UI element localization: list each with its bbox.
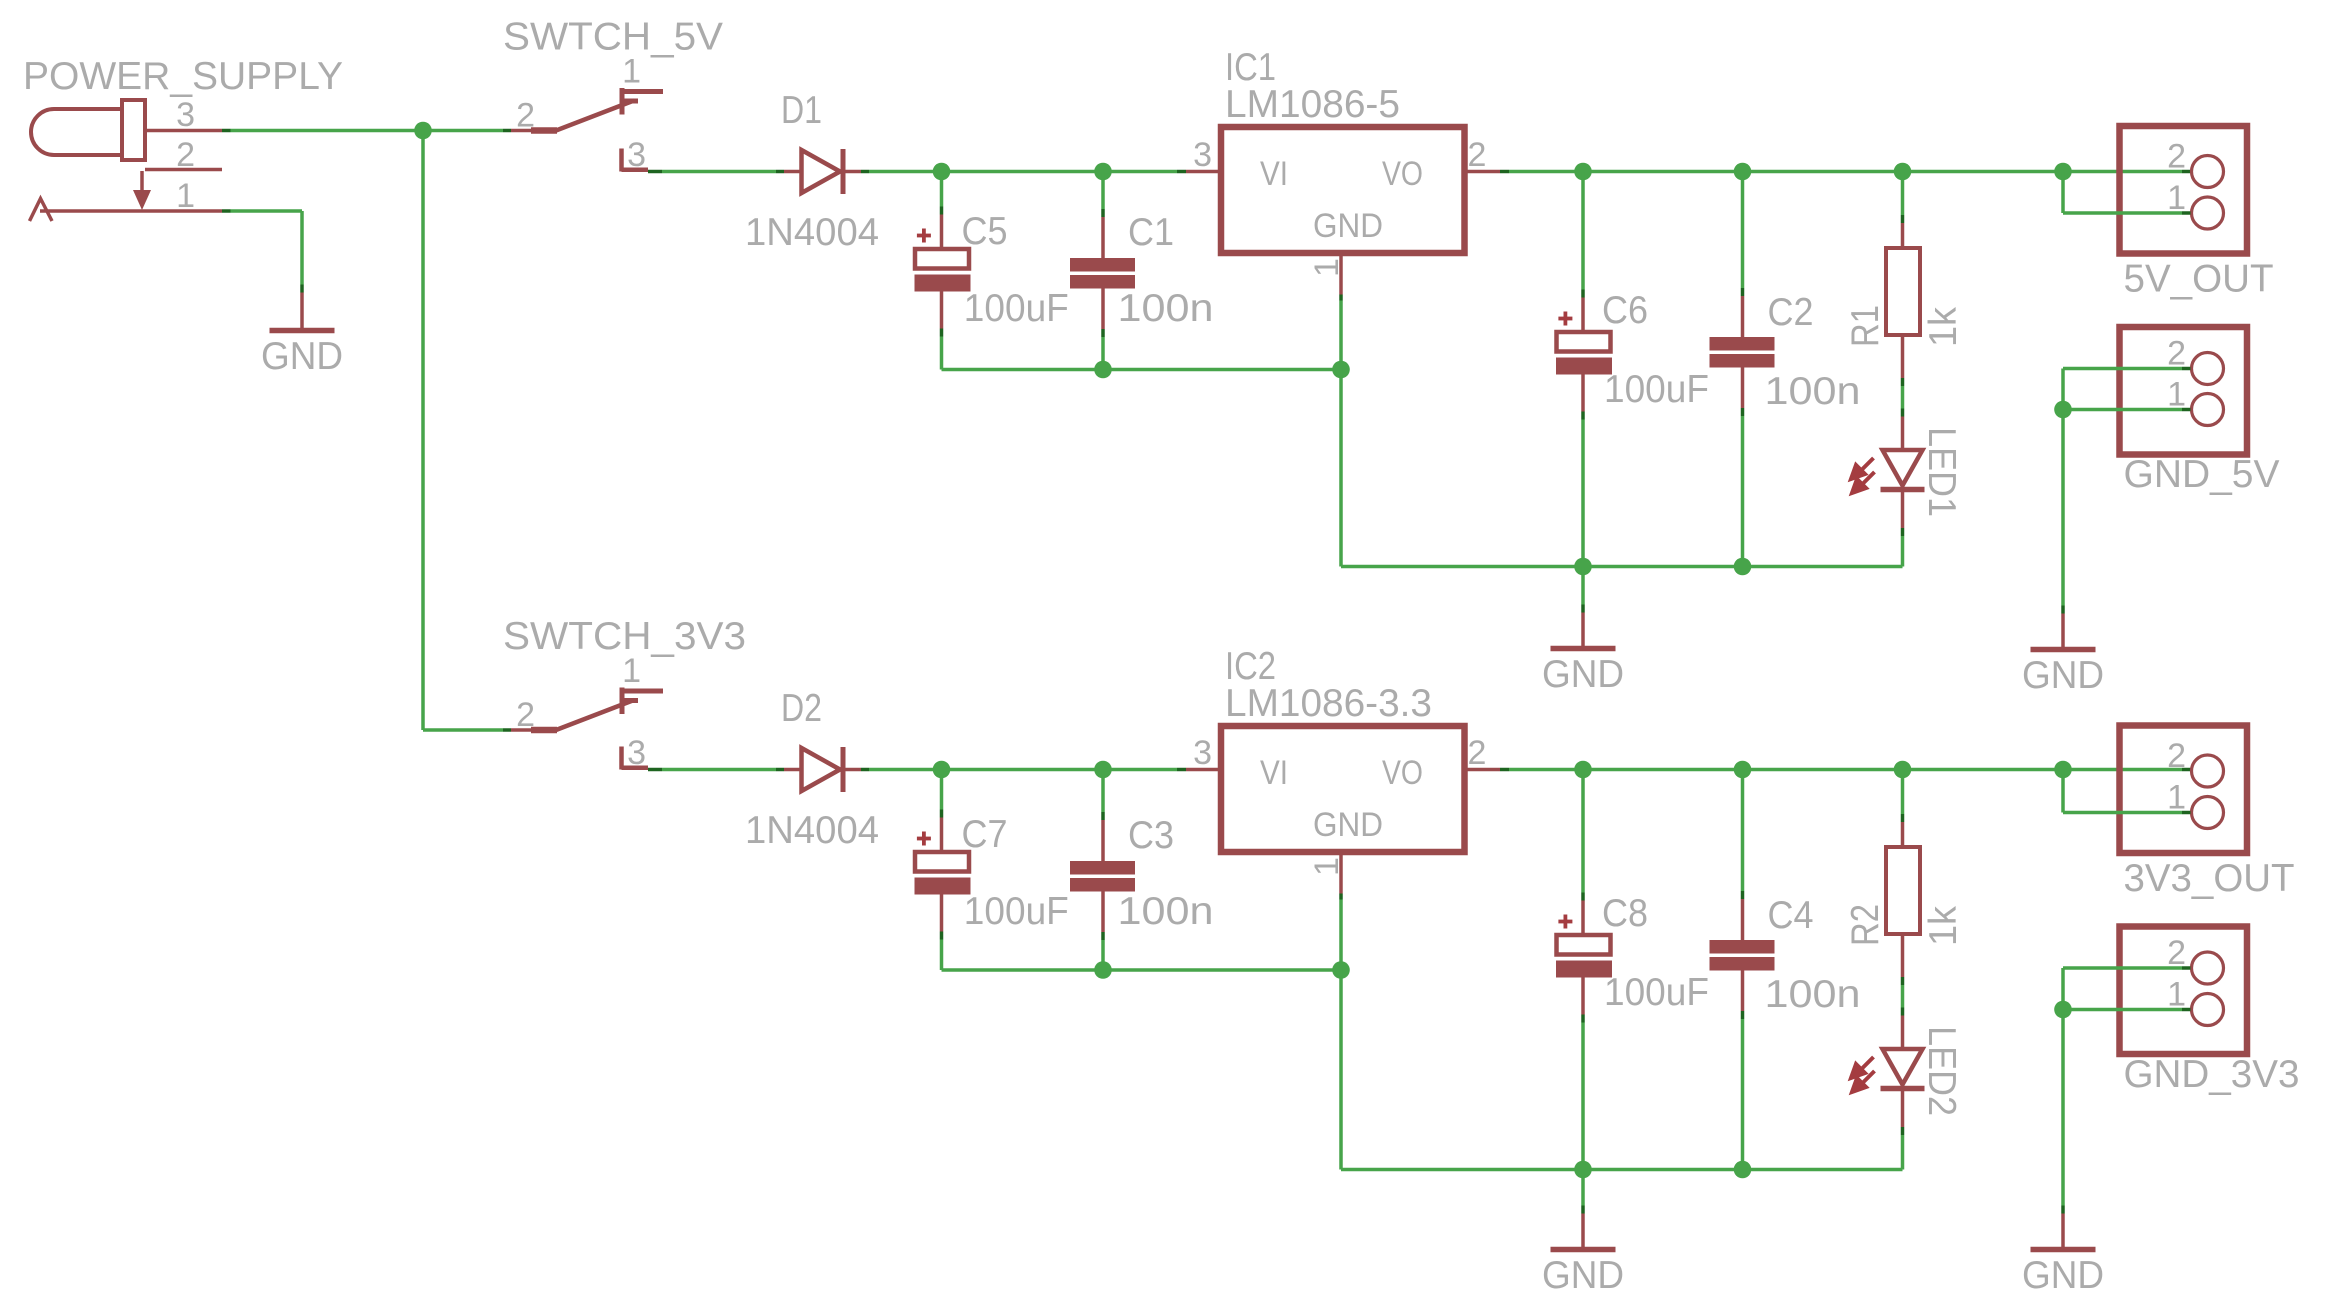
capacitor C7 plus sign [917, 832, 931, 846]
X4 3V3 output pin 2 number [2167, 737, 2186, 775]
net label SWTCH_5V [503, 16, 723, 59]
X5 3V3 ground pin 2 circle [2192, 952, 2224, 984]
wire net VIN pin3 to junction [222, 129, 423, 133]
svg-text:C4: C4 [1768, 894, 1814, 937]
wire C3 top pin [1101, 770, 1105, 862]
junction node 5V at connector [2054, 163, 2072, 181]
connector X3 5V ground body [2120, 327, 2248, 455]
wire C6 bottom pin [1581, 375, 1585, 567]
connector X5 3V3 ground body [2120, 927, 2248, 1055]
junction node 3V3 at C8 [1574, 761, 1592, 779]
wire net GND pin1 to elbow [222, 211, 302, 285]
capacitor C1 [1070, 258, 1135, 289]
LED2 name label [1920, 1026, 1963, 1116]
R1 value label 1k [1922, 307, 1965, 347]
D2 name label [781, 687, 822, 730]
X1 pin 2 lead [145, 168, 222, 172]
svg-text:GND: GND [1313, 207, 1383, 245]
net label POWER_SUPPLY [23, 55, 343, 98]
wire X3 pin2 [2063, 369, 2191, 410]
wire C7 top pin [940, 770, 944, 853]
svg-text:100uF: 100uF [1604, 368, 1709, 411]
svg-text:100uF: 100uF [964, 287, 1069, 330]
wire net 5V VO rail [1509, 170, 2191, 174]
junction node low rail at C2 [1734, 558, 1752, 576]
wire rail to R1 [1901, 172, 1905, 249]
svg-text:1: 1 [1308, 857, 1346, 876]
wire C5 top pin [940, 172, 944, 250]
IC1 GND pin lead [1339, 253, 1343, 301]
wire low rail 3V3 section [1341, 1168, 1903, 1172]
capacitor C6 [1556, 332, 1612, 375]
ground symbol GND (supply) [261, 285, 343, 379]
capacitor C6 plus sign [1558, 312, 1572, 326]
LED LED2 [1881, 1049, 1925, 1089]
IC2 GND pin lead [1339, 852, 1343, 900]
svg-text:2: 2 [516, 97, 535, 135]
D1 value label 1N4004 [745, 211, 879, 254]
svg-text:1: 1 [176, 177, 195, 215]
wire D1 cathode to junction [861, 170, 941, 174]
S1 pin 2 stub [503, 129, 557, 133]
voltage regulator IC1 [1221, 127, 1465, 253]
svg-text:LED2: LED2 [1920, 1026, 1963, 1116]
S2 pin 3 number [627, 734, 646, 772]
wire C8 gnd stem [1581, 1170, 1585, 1206]
svg-text:LED1: LED1 [1920, 427, 1963, 517]
svg-text:1: 1 [1308, 258, 1346, 277]
X3 5V ground pin 2 circle [2192, 353, 2224, 385]
junction node mid rail at IC1 GND net [1332, 361, 1350, 379]
voltage regulator IC2 [1221, 726, 1465, 852]
C2 value label 100n [1765, 370, 1861, 413]
C4 name label [1768, 894, 1814, 937]
svg-text:GND: GND [1313, 806, 1383, 844]
svg-text:C7: C7 [962, 813, 1008, 856]
wire IC2 GND to low rail [1339, 900, 1343, 1170]
X3 5V ground pin 1 number [2167, 376, 2186, 414]
junction node 5V at R1 [1894, 163, 1912, 181]
svg-text:2: 2 [1468, 734, 1487, 772]
wire D2 junction to C3 junction [942, 768, 1104, 772]
ground symbol GND (below C6) [1542, 605, 1624, 697]
wire C2 bottom pin [1741, 368, 1745, 567]
C3 name label [1128, 814, 1174, 857]
IC1 pin 1 number [1308, 258, 1346, 277]
X4 3V3 output pin 1 number [2167, 779, 2186, 817]
svg-text:1N4004: 1N4004 [745, 809, 879, 852]
svg-text:2: 2 [1468, 136, 1487, 174]
X2 5V output pin 1 circle [2192, 197, 2224, 229]
S2 pin 2 stub [503, 728, 557, 732]
resistor R2 [1886, 847, 1920, 934]
wire junction to 5V switch [432, 129, 504, 133]
capacitor C7 [915, 852, 971, 895]
IC2 pin 2 number [1468, 734, 1487, 772]
svg-text:C8: C8 [1602, 892, 1648, 935]
svg-text:100n: 100n [1765, 370, 1861, 413]
X3 5V ground pin 2 number [2167, 335, 2186, 373]
svg-text:VI: VI [1260, 754, 1288, 792]
IC2 pin name VI [1260, 754, 1288, 792]
diode D1 [784, 149, 861, 194]
R2 name label [1844, 904, 1887, 946]
wire net VIN vertical to 3V3 switch [421, 131, 425, 731]
resistor R1 [1886, 248, 1920, 335]
wire mid rail C7 to IC2 GND [942, 968, 1342, 972]
svg-text:2: 2 [176, 136, 195, 174]
junction node low rail at C8 [1574, 1161, 1592, 1179]
junction node X5 gnd [2054, 1001, 2072, 1019]
S1 pin 1 number [622, 53, 641, 91]
svg-text:VO: VO [1382, 754, 1423, 792]
IC1 pin name VI [1260, 155, 1288, 193]
X1 pin 3 number [176, 96, 195, 134]
IC1 VO pin lead [1465, 170, 1510, 174]
svg-text:3: 3 [627, 734, 646, 772]
svg-text:1: 1 [622, 652, 641, 690]
IC2 value label LM1086-3.3 [1225, 682, 1432, 725]
IC2 VO pin lead [1465, 768, 1510, 772]
IC1 pin 2 number [1468, 136, 1487, 174]
svg-text:3: 3 [176, 96, 195, 134]
wire LED1 cathode pin [1901, 492, 1905, 567]
X1 switch-contact arrow [133, 171, 151, 210]
junction node 5V at C6 [1574, 163, 1592, 181]
svg-text:GND: GND [261, 335, 343, 378]
wire C8 bottom pin [1581, 978, 1585, 1170]
X5 3V3 ground pin 1 number [2167, 976, 2186, 1014]
R1 bottom lead [1901, 335, 1905, 386]
wire elbow to 3V3 switch [423, 728, 503, 732]
svg-text:R2: R2 [1844, 904, 1887, 946]
X5 3V3 ground pin 2 number [2167, 934, 2186, 972]
svg-text:2: 2 [2167, 138, 2186, 176]
junction node X3 gnd [2054, 401, 2072, 419]
C1 name label [1128, 211, 1174, 254]
S2 lever [556, 700, 638, 730]
svg-text:POWER_SUPPLY: POWER_SUPPLY [23, 55, 343, 98]
S2 pin 3 contact [622, 747, 649, 770]
X3 5V ground pin 1 circle [2192, 394, 2224, 426]
S1 pin 3 contact [622, 149, 649, 172]
junction node mid rail at IC2 GND net [1332, 961, 1350, 979]
svg-text:2: 2 [2167, 737, 2186, 775]
net label GND_3V3 [2124, 1053, 2300, 1096]
svg-text:GND: GND [2022, 1254, 2104, 1297]
junction node VIN [414, 122, 432, 140]
wire X5 pin2 [2063, 968, 2191, 1010]
svg-text:1N4004: 1N4004 [745, 211, 879, 254]
C8 name label [1602, 892, 1648, 935]
X2 5V output pin 2 number [2167, 138, 2186, 176]
wire 5V branch to X2 pin1 [2063, 172, 2191, 214]
net label SWTCH_3V3 [503, 615, 746, 658]
R2 value label 1k [1922, 906, 1965, 946]
junction node low rail at C4 [1734, 1161, 1752, 1179]
svg-text:VO: VO [1382, 155, 1423, 193]
junction node C1 bottom [1094, 361, 1112, 379]
wire X3 pin1 [2063, 408, 2191, 412]
C5 name label [962, 210, 1008, 253]
LED LED1 [1881, 450, 1925, 490]
wire LED2 top pin [1901, 985, 1905, 1047]
svg-text:VI: VI [1260, 155, 1288, 193]
D1 name label [781, 89, 822, 132]
LED2 emission arrows [1851, 1057, 1875, 1092]
svg-text:1: 1 [622, 53, 641, 91]
wire X5 pin1 [2063, 1008, 2191, 1012]
svg-text:GND_5V: GND_5V [2124, 453, 2280, 496]
wire switch pin3 to D1 [648, 170, 784, 174]
S1 pin 1 contact [620, 88, 664, 115]
ground symbol GND (below GND_5V) [2022, 606, 2104, 698]
IC2 name label [1225, 645, 1276, 688]
wire low rail 5V section [1341, 565, 1903, 569]
C2 name label [1768, 291, 1814, 334]
X5 3V3 ground pin 1 circle [2192, 994, 2224, 1026]
wire X3 gnd stem [2061, 410, 2065, 606]
svg-text:100n: 100n [1118, 890, 1214, 933]
connector X1 power supply jack symbol [31, 100, 145, 160]
junction node low rail at C6 [1574, 558, 1592, 576]
C7 value label 100uF [964, 890, 1069, 933]
S2 pin 2 number [516, 696, 535, 734]
IC1 pin name VO [1382, 155, 1423, 193]
S2 pin 1 contact [620, 688, 664, 715]
X2 5V output pin 2 circle [2192, 156, 2224, 188]
IC2 pin name VO [1382, 754, 1423, 792]
S1 pin 2 number [516, 97, 535, 135]
C1 value label 100n [1118, 287, 1214, 330]
svg-text:C3: C3 [1128, 814, 1174, 857]
C4 value label 100n [1765, 973, 1861, 1016]
R2 bottom lead [1901, 934, 1905, 985]
capacitor C8 plus sign [1558, 915, 1572, 929]
svg-text:100uF: 100uF [1604, 971, 1709, 1014]
ground symbol GND (below GND_3V3) [2022, 1206, 2104, 1298]
IC2 pin 1 number [1308, 857, 1346, 876]
IC2 pin 3 number [1193, 734, 1212, 772]
svg-text:100n: 100n [1765, 973, 1861, 1016]
wire 3V3 branch to X4 pin1 [2063, 770, 2191, 813]
svg-text:100n: 100n [1118, 287, 1214, 330]
C5 value label 100uF [964, 287, 1069, 330]
wire mid rail C5 to IC1 GND [942, 368, 1342, 372]
wire X5 gnd stem [2061, 1010, 2065, 1206]
X1 sleeve chevron [30, 199, 53, 222]
wire LED2 cathode pin [1901, 1091, 1905, 1170]
wire LED1 top pin [1901, 386, 1905, 448]
svg-text:LM1086-3.3: LM1086-3.3 [1225, 682, 1432, 725]
net label 5V_OUT [2124, 258, 2274, 301]
svg-text:5V_OUT: 5V_OUT [2124, 258, 2274, 301]
svg-text:SWTCH_5V: SWTCH_5V [503, 16, 723, 59]
wire C3 bottom pin [1101, 892, 1105, 971]
svg-text:GND_3V3: GND_3V3 [2124, 1053, 2300, 1096]
X2 5V output pin 1 number [2167, 179, 2186, 217]
IC1 value label LM1086-5 [1225, 83, 1400, 126]
svg-text:1k: 1k [1922, 307, 1965, 347]
junction node 3V3 at C4 [1734, 761, 1752, 779]
svg-text:1k: 1k [1922, 906, 1965, 946]
wire C1 bottom pin [1101, 289, 1105, 370]
wire C2 top pin [1741, 172, 1745, 338]
svg-text:2: 2 [516, 696, 535, 734]
wire junction to IC2 VI pin [1103, 768, 1221, 772]
wire C1 top pin [1101, 172, 1105, 259]
D2 value label 1N4004 [745, 809, 879, 852]
IC1 pin name GND [1313, 207, 1383, 245]
capacitor C5 [915, 249, 971, 292]
R1 name label [1844, 305, 1887, 347]
wire C8 top pin [1581, 770, 1585, 936]
net label 3V3_OUT [2124, 857, 2295, 900]
svg-text:3: 3 [1193, 734, 1212, 772]
svg-text:3V3_OUT: 3V3_OUT [2124, 857, 2295, 900]
connector X2 5V output body [2120, 126, 2248, 254]
svg-text:100uF: 100uF [964, 890, 1069, 933]
IC2 pin name GND [1313, 806, 1383, 844]
wire C4 top pin [1741, 770, 1745, 941]
capacitor C3 [1070, 861, 1135, 892]
wire D1 junction to C1 junction [942, 170, 1104, 174]
net label GND_5V [2124, 453, 2280, 496]
X1 pin 1 number [176, 177, 195, 215]
wire C5 bottom pin [940, 292, 944, 370]
capacitor C4 [1710, 940, 1775, 971]
junction node 3V3 at connector [2054, 761, 2072, 779]
wire C4 bottom pin [1741, 971, 1745, 1170]
connector X4 3V3 output body [2120, 726, 2248, 854]
junction node after D2 [933, 761, 951, 779]
wire C6 gnd stem [1581, 567, 1585, 605]
svg-text:GND: GND [1542, 1254, 1624, 1297]
LED1 name label [1920, 427, 1963, 517]
svg-text:D1: D1 [781, 89, 822, 132]
X1 pin 2 number [176, 136, 195, 174]
C6 value label 100uF [1604, 368, 1709, 411]
wire junction to IC1 VI pin [1103, 170, 1221, 174]
capacitor C8 [1556, 935, 1612, 978]
junction node C3 bottom [1094, 961, 1112, 979]
capacitor C5 plus sign [917, 229, 931, 243]
svg-text:LM1086-5: LM1086-5 [1225, 83, 1400, 126]
C3 value label 100n [1118, 890, 1214, 933]
X1 pin 3 lead [145, 129, 222, 133]
svg-text:R1: R1 [1844, 305, 1887, 347]
X1 pin 1 lead (sleeve) [40, 209, 222, 213]
S1 pin 3 number [627, 136, 646, 174]
C6 name label [1602, 289, 1648, 332]
S2 pin 1 number [622, 652, 641, 690]
ground symbol GND (below C8) [1542, 1206, 1624, 1298]
wire net 3V3 VO rail [1509, 768, 2191, 772]
junction node 3V3 at R2 [1894, 761, 1912, 779]
wire IC1 GND to low rail [1339, 301, 1343, 567]
IC1 name label [1225, 46, 1276, 89]
C7 name label [962, 813, 1008, 856]
svg-text:GND: GND [1542, 653, 1624, 696]
capacitor C2 [1710, 337, 1775, 368]
C8 value label 100uF [1604, 971, 1709, 1014]
svg-text:GND: GND [2022, 654, 2104, 697]
junction node at C1 [1094, 163, 1112, 181]
IC1 pin 3 number [1193, 136, 1212, 174]
svg-text:3: 3 [1193, 136, 1212, 174]
junction node 5V at C2 [1734, 163, 1752, 181]
wire C7 bottom pin [940, 895, 944, 971]
wire rail to R2 [1901, 770, 1905, 848]
wire D2 cathode to junction [861, 768, 941, 772]
svg-text:C5: C5 [962, 210, 1008, 253]
X4 3V3 output pin 2 circle [2192, 755, 2224, 787]
wire C6 top pin [1581, 172, 1585, 333]
junction node after D1 [933, 163, 951, 181]
svg-text:C1: C1 [1128, 211, 1174, 254]
S1 lever [556, 101, 638, 131]
diode D2 [784, 747, 861, 792]
X4 3V3 output pin 1 circle [2192, 797, 2224, 829]
LED1 emission arrows [1851, 458, 1875, 493]
junction node at C3 [1094, 761, 1112, 779]
svg-text:3: 3 [627, 136, 646, 174]
svg-text:C6: C6 [1602, 289, 1648, 332]
svg-text:D2: D2 [781, 687, 822, 730]
svg-text:C2: C2 [1768, 291, 1814, 334]
wire switch pin3 to D2 [648, 768, 784, 772]
